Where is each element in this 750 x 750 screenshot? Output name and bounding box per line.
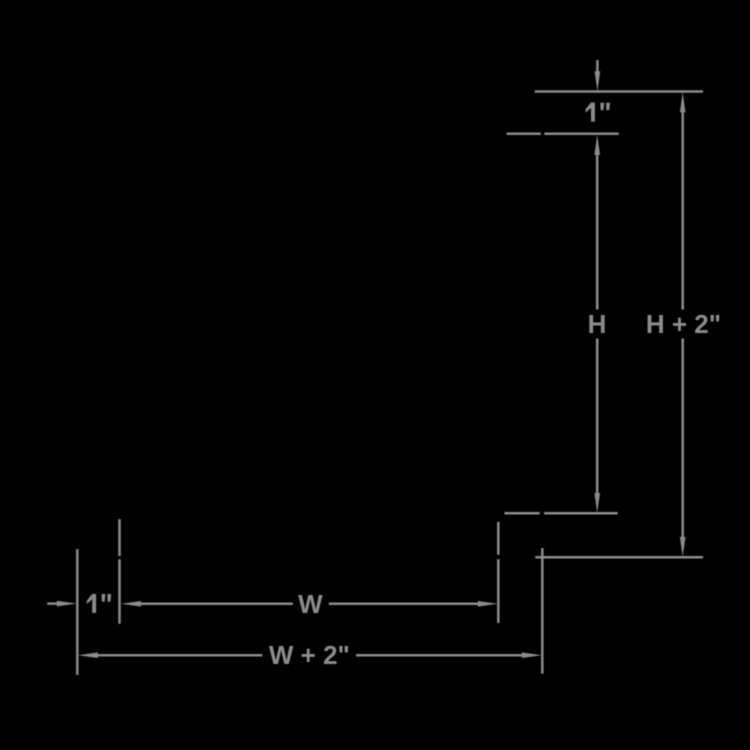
svg-text:W: W — [298, 589, 323, 619]
dimension line H+2 (upper segment) — [681, 109, 684, 310]
arrowhead: top 1-inch leader pointing down — [595, 71, 601, 91]
extension line: inner opening bottom edge (right segment) — [544, 512, 618, 515]
arrowhead: H dimension top, pointing up — [594, 135, 600, 155]
extension line: inner opening bottom edge (left segment) — [505, 512, 540, 515]
arrowhead: bottom-left 1-inch leader pointing right — [57, 601, 77, 607]
leader line: top 1-inch dimension — [596, 60, 599, 74]
arrowhead: W+2 dimension left, pointing left — [78, 652, 98, 658]
dimension line W+2 (right segment) — [356, 654, 524, 657]
dimension line H (lower segment) — [596, 339, 599, 496]
extension line: inner opening top edge (right segment) — [544, 132, 619, 135]
svg-text:H: H — [588, 309, 607, 339]
arrowhead: H+2 dimension bottom, pointing down — [680, 537, 686, 557]
extension line: outer mat bottom edge — [535, 556, 703, 559]
arrowhead: W dimension left, pointing left — [121, 601, 141, 607]
arrowhead: H+2 dimension top, pointing up — [680, 92, 686, 112]
dimension line W+2 (left segment) — [95, 654, 262, 657]
arrowhead: W+2 dimension right, pointing right — [522, 652, 542, 658]
dimension line H (upper segment) — [596, 152, 599, 310]
extension line: inner opening left edge (upper segment) — [118, 519, 121, 556]
extension line: outer mat left edge — [76, 549, 79, 675]
dimension line W (left segment) — [138, 603, 293, 606]
extension line: inner opening right edge (lower segment) — [497, 559, 500, 623]
svg-text:W + 2": W + 2" — [269, 640, 350, 670]
leader line: bottom-left 1-inch dimension — [47, 602, 59, 605]
arrowhead: H dimension bottom, pointing down — [594, 493, 600, 513]
label: 1 inch (top border) — [586, 103, 610, 122]
dimension line H+2 (lower segment) — [681, 339, 684, 540]
extension line: inner opening left edge (lower segment) — [118, 559, 121, 624]
dimension line W (right segment) — [329, 603, 480, 606]
extension line: inner opening top edge (left segment) — [507, 132, 541, 135]
extension line: outer mat right edge — [541, 548, 544, 674]
svg-text:H + 2": H + 2" — [646, 309, 721, 339]
extension line: inner opening right edge (upper segment) — [497, 522, 500, 555]
label: 1 inch (left border) — [87, 594, 111, 613]
arrowhead: W dimension right, pointing right — [478, 601, 498, 607]
extension line: outer mat top edge — [535, 90, 703, 93]
